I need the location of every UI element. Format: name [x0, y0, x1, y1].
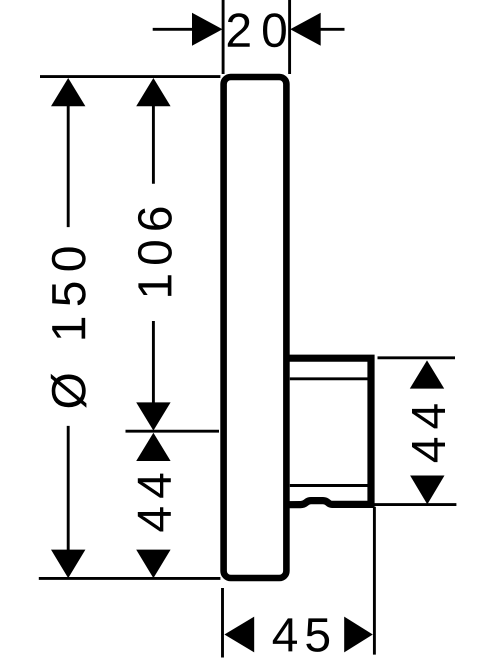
dim 45: left extension line: [221, 588, 224, 658]
dim 44 left: bottom arrowhead: [136, 550, 170, 579]
dim 106: top arrowhead: [136, 78, 170, 106]
dim 45: left arrowhead: [224, 617, 254, 653]
dim 44 right: bottom extension line: [370, 503, 456, 506]
dim O150: line lower segment: [67, 426, 70, 552]
dim 20: value label: [228, 13, 286, 47]
dim 45: right extension line: [373, 507, 376, 655]
dim O150: top arrowhead: [51, 78, 85, 106]
dim 106: bottom arrowhead: [136, 402, 170, 430]
dim 106: value label: [138, 208, 172, 296]
dim 44 right: bottom arrowhead: [410, 476, 444, 505]
dim 44 right: value label: [412, 404, 445, 462]
extension line bottom-left (plate bottom): [39, 577, 221, 580]
dim 106: line upper segment: [152, 104, 155, 184]
dim O150: bottom arrowhead: [51, 550, 85, 579]
dim 45: right arrowhead: [344, 617, 373, 653]
dim 44 left: top arrowhead: [136, 433, 170, 461]
dim 20: right arrowhead: [290, 13, 321, 46]
dim 44 left: value label: [138, 474, 171, 532]
block inner line upper: [290, 377, 368, 380]
dim O150: line upper segment: [67, 104, 70, 227]
tick line at 106/44 junction: [126, 430, 220, 433]
dim 44 right: top extension line: [378, 356, 456, 359]
extension line top-left (plate top): [40, 75, 220, 78]
dim 20: right extension line: [288, 0, 291, 74]
dim 20: left extension line: [222, 0, 225, 74]
dim 20: right tail line: [318, 28, 345, 31]
plate outline: [224, 77, 287, 578]
dim O150: value label: [51, 247, 87, 407]
dim 20: left tail line: [153, 28, 196, 31]
dim 44 right: top arrowhead: [410, 360, 444, 388]
block (functional unit) outline: [286, 358, 371, 505]
dim 45: value label: [273, 618, 329, 652]
block inner line lower: [290, 484, 368, 487]
dim 20: left arrowhead: [192, 13, 223, 46]
dim 106: line lower segment: [152, 321, 155, 404]
